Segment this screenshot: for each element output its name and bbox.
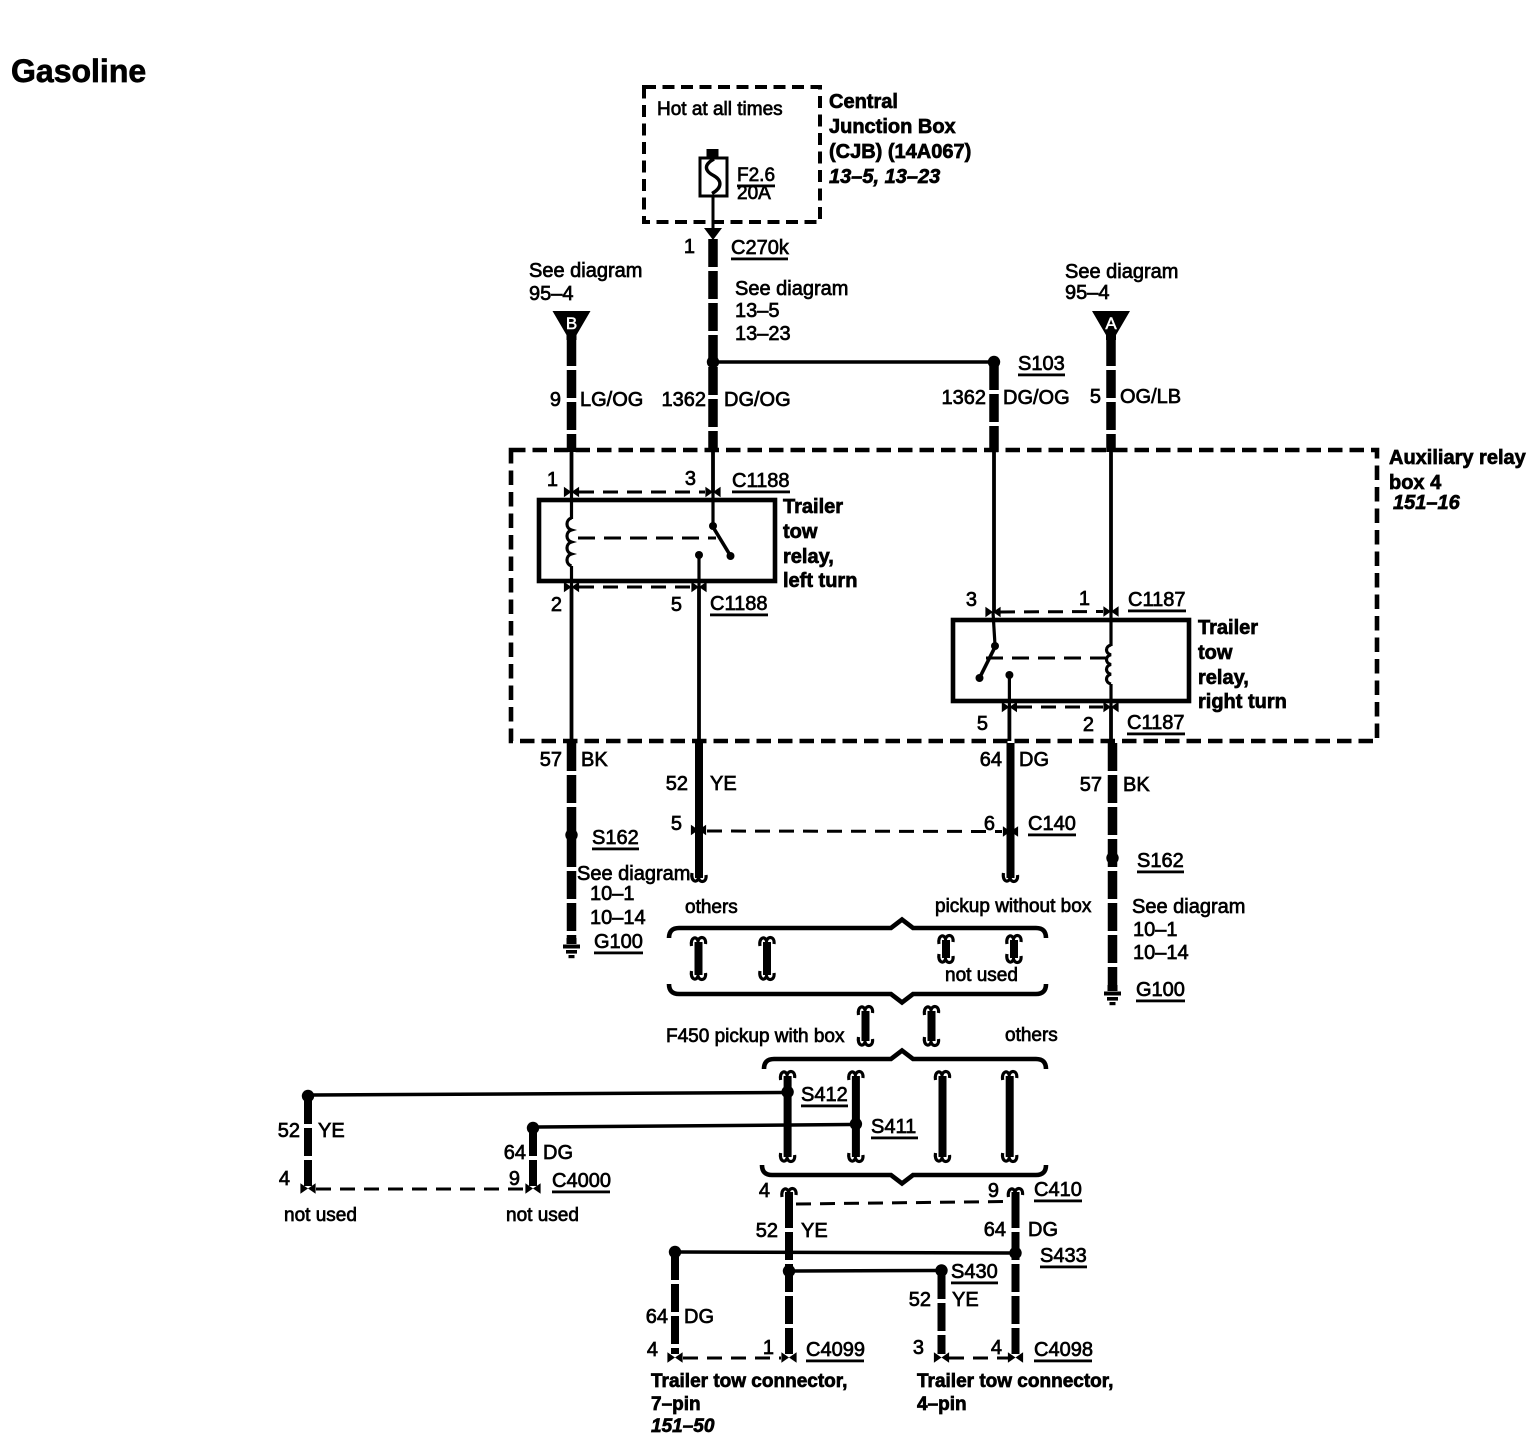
svg-text:4: 4 bbox=[991, 1337, 1002, 1359]
svg-text:4: 4 bbox=[279, 1168, 290, 1190]
svg-text:C4098: C4098 bbox=[1034, 1339, 1093, 1361]
svg-text:5: 5 bbox=[671, 813, 682, 835]
svg-text:others: others bbox=[1005, 1025, 1058, 1046]
svg-text:YE: YE bbox=[318, 1120, 345, 1142]
svg-text:See diagram: See diagram bbox=[577, 863, 690, 885]
svg-text:52: 52 bbox=[756, 1220, 778, 1242]
svg-text:YE: YE bbox=[710, 773, 737, 795]
svg-text:C1187: C1187 bbox=[1127, 712, 1184, 734]
svg-text:Trailer: Trailer bbox=[783, 496, 843, 518]
svg-text:5: 5 bbox=[977, 713, 988, 735]
svg-text:57: 57 bbox=[540, 749, 562, 771]
svg-text:S430: S430 bbox=[951, 1261, 998, 1283]
svg-text:Central: Central bbox=[829, 91, 898, 113]
svg-text:LG/OG: LG/OG bbox=[580, 389, 643, 411]
svg-text:52: 52 bbox=[909, 1289, 931, 1311]
svg-text:C270k: C270k bbox=[731, 237, 790, 259]
svg-text:10–1: 10–1 bbox=[590, 883, 635, 905]
svg-text:95–4: 95–4 bbox=[529, 283, 574, 305]
svg-text:DG/OG: DG/OG bbox=[724, 389, 791, 411]
svg-text:9: 9 bbox=[509, 1168, 520, 1190]
svg-text:1: 1 bbox=[547, 469, 558, 491]
svg-text:95–4: 95–4 bbox=[1065, 282, 1110, 304]
svg-text:tow: tow bbox=[1198, 642, 1233, 664]
svg-text:Gasoline: Gasoline bbox=[11, 53, 146, 89]
svg-text:1: 1 bbox=[1079, 588, 1090, 610]
svg-text:G100: G100 bbox=[1136, 979, 1185, 1001]
svg-text:S411: S411 bbox=[871, 1116, 916, 1138]
svg-text:C410: C410 bbox=[1034, 1179, 1082, 1201]
svg-text:10–1: 10–1 bbox=[1133, 919, 1178, 941]
svg-text:C4099: C4099 bbox=[806, 1339, 865, 1361]
svg-text:See diagram: See diagram bbox=[529, 260, 642, 282]
svg-text:Trailer: Trailer bbox=[1198, 617, 1258, 639]
svg-text:C1188: C1188 bbox=[710, 593, 767, 615]
svg-text:2: 2 bbox=[551, 594, 562, 616]
svg-text:YE: YE bbox=[952, 1289, 979, 1311]
svg-text:C140: C140 bbox=[1028, 813, 1076, 835]
svg-text:S162: S162 bbox=[1137, 850, 1184, 872]
svg-text:DG: DG bbox=[1028, 1219, 1058, 1241]
svg-text:9: 9 bbox=[988, 1180, 999, 1202]
svg-text:Trailer tow connector,: Trailer tow connector, bbox=[651, 1371, 847, 1392]
svg-text:box 4: box 4 bbox=[1389, 472, 1442, 494]
svg-text:A: A bbox=[1105, 314, 1117, 333]
svg-text:64: 64 bbox=[504, 1142, 526, 1164]
svg-text:5: 5 bbox=[1090, 386, 1101, 408]
svg-text:5: 5 bbox=[671, 594, 682, 616]
svg-text:1362: 1362 bbox=[662, 389, 707, 411]
svg-text:BK: BK bbox=[1123, 774, 1150, 796]
svg-text:9: 9 bbox=[550, 389, 561, 411]
svg-text:DG: DG bbox=[543, 1142, 573, 1164]
svg-text:Auxiliary relay: Auxiliary relay bbox=[1389, 447, 1527, 469]
svg-text:6: 6 bbox=[984, 813, 995, 835]
svg-text:YE: YE bbox=[801, 1220, 828, 1242]
svg-text:10–14: 10–14 bbox=[1133, 942, 1189, 964]
svg-text:not used: not used bbox=[506, 1205, 579, 1226]
svg-text:3: 3 bbox=[913, 1337, 924, 1359]
svg-text:52: 52 bbox=[666, 773, 688, 795]
svg-text:2: 2 bbox=[1083, 714, 1094, 736]
svg-text:pickup without box: pickup without box bbox=[935, 896, 1092, 917]
svg-text:Junction Box: Junction Box bbox=[829, 116, 956, 138]
svg-text:C4000: C4000 bbox=[552, 1170, 611, 1192]
svg-text:not used: not used bbox=[284, 1205, 357, 1226]
svg-text:C1187: C1187 bbox=[1128, 589, 1185, 611]
svg-text:S433: S433 bbox=[1040, 1245, 1087, 1267]
svg-text:S162: S162 bbox=[592, 827, 639, 849]
svg-text:4–pin: 4–pin bbox=[917, 1394, 967, 1415]
svg-text:Trailer tow connector,: Trailer tow connector, bbox=[917, 1371, 1113, 1392]
svg-text:64: 64 bbox=[646, 1306, 668, 1328]
svg-text:DG/OG: DG/OG bbox=[1003, 387, 1070, 409]
svg-text:relay,: relay, bbox=[1198, 667, 1249, 689]
svg-text:See diagram: See diagram bbox=[1132, 896, 1245, 918]
svg-text:1: 1 bbox=[763, 1337, 774, 1359]
svg-text:S412: S412 bbox=[801, 1084, 848, 1106]
svg-text:not used: not used bbox=[945, 965, 1018, 986]
svg-text:151–50: 151–50 bbox=[651, 1416, 715, 1437]
svg-text:57: 57 bbox=[1080, 774, 1102, 796]
svg-text:3: 3 bbox=[685, 468, 696, 490]
svg-text:(CJB) (14A067): (CJB) (14A067) bbox=[829, 141, 971, 163]
svg-text:left turn: left turn bbox=[783, 570, 857, 592]
svg-text:151–16: 151–16 bbox=[1393, 492, 1461, 514]
svg-text:others: others bbox=[685, 897, 738, 918]
svg-text:See diagram: See diagram bbox=[735, 278, 848, 300]
svg-text:Hot at all times: Hot at all times bbox=[657, 99, 783, 120]
svg-text:OG/LB: OG/LB bbox=[1120, 386, 1181, 408]
svg-text:3: 3 bbox=[966, 589, 977, 611]
svg-text:tow: tow bbox=[783, 521, 818, 543]
svg-text:64: 64 bbox=[984, 1219, 1006, 1241]
svg-text:DG: DG bbox=[1019, 749, 1049, 771]
svg-text:10–14: 10–14 bbox=[590, 907, 646, 929]
svg-text:4: 4 bbox=[647, 1339, 658, 1361]
svg-text:B: B bbox=[566, 314, 577, 333]
svg-text:See diagram: See diagram bbox=[1065, 261, 1178, 283]
svg-text:BK: BK bbox=[581, 749, 608, 771]
svg-text:C1188: C1188 bbox=[732, 470, 789, 492]
svg-text:F450 pickup with box: F450 pickup with box bbox=[666, 1026, 845, 1047]
svg-text:4: 4 bbox=[759, 1180, 770, 1202]
svg-text:right turn: right turn bbox=[1198, 691, 1287, 713]
svg-text:1362: 1362 bbox=[942, 387, 987, 409]
svg-text:13–5, 13–23: 13–5, 13–23 bbox=[829, 166, 940, 188]
svg-text:DG: DG bbox=[684, 1306, 714, 1328]
svg-text:7–pin: 7–pin bbox=[651, 1394, 701, 1415]
svg-text:relay,: relay, bbox=[783, 546, 834, 568]
svg-text:13–23: 13–23 bbox=[735, 323, 791, 345]
svg-text:13–5: 13–5 bbox=[735, 300, 780, 322]
svg-text:G100: G100 bbox=[594, 931, 643, 953]
svg-text:S103: S103 bbox=[1018, 353, 1065, 375]
svg-text:20A: 20A bbox=[737, 183, 771, 204]
svg-text:64: 64 bbox=[980, 749, 1002, 771]
svg-text:1: 1 bbox=[684, 236, 695, 258]
svg-text:52: 52 bbox=[278, 1120, 300, 1142]
